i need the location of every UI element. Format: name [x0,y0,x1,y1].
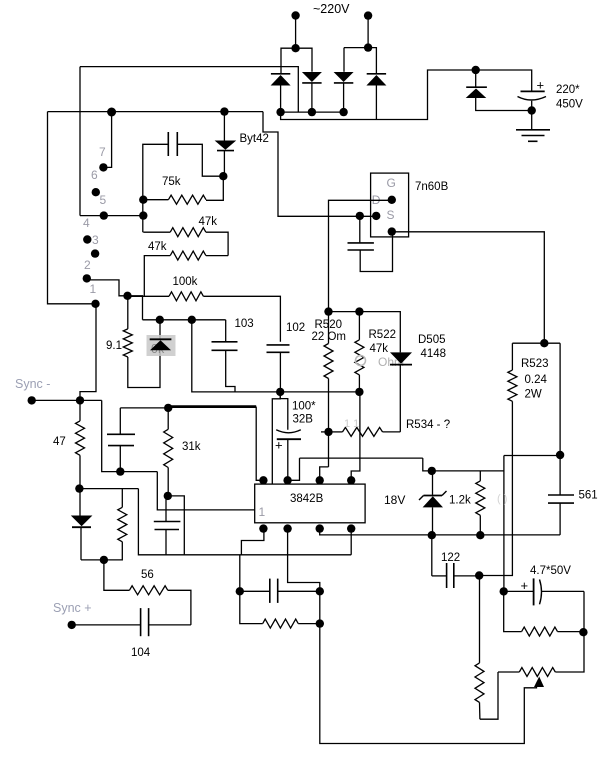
wire 102 bottom lead [279,352,281,392]
svg-text:47k: 47k [370,343,389,355]
resistor R522 [358,312,360,340]
wire pinC' rail y535 [320,529,560,535]
node pin4-row/bus junction [139,211,147,219]
capacitor C-bulk 220uF 450V [521,90,545,92]
resistor R523 [511,343,513,370]
node 47 bottom junction [75,484,83,492]
wire dot591 up [239,555,241,592]
resistor bottom-mid [240,591,263,623]
node bridge bottom D2 [308,108,316,116]
wire 103 top lead [225,320,227,342]
svg-text:4: 4 [83,216,90,230]
wire 18V feed step [423,458,432,471]
wire 561 right drop [559,343,561,455]
node bridge bottom D3 [339,108,347,116]
resistor R520 [328,312,330,344]
wire pin1 feed [157,472,254,510]
svg-text:100*: 100* [292,401,316,413]
node electrolytic top junction [276,388,284,396]
svg-text:G: G [387,176,396,190]
svg-text:3842B: 3842B [290,493,324,505]
wire x512 long vertical [479,456,512,576]
svg-text:47k: 47k [148,241,167,253]
node source row dot A [356,212,364,220]
wire 103 bottom lead [226,350,235,392]
ghost selection around zener [147,335,176,356]
wire Byt42 to 75k right end [206,176,223,200]
svg-text:103: 103 [235,318,254,330]
wire bridge top-left rail [281,48,312,73]
wire gate cap top lead [359,216,361,243]
svg-text:R522: R522 [369,329,397,341]
diode D3 bridge [334,72,354,82]
capacitor 561 [559,455,561,495]
wire AC terminal right lead [367,16,369,48]
node 122 right junction [475,571,483,579]
svg-text:7: 7 [99,145,106,159]
svg-text:S: S [387,208,395,222]
diode D505 [390,352,412,363]
node 31k top junction [164,404,172,412]
wire 47dot right row [79,488,138,490]
wire AC terminal left lead [295,16,297,49]
wire diode D5 top lead [475,70,477,87]
node bridge top-left junction [291,44,299,52]
svg-text:R534 - ?: R534 - ? [406,419,450,431]
resistor 31k [167,408,169,429]
op-amp 7n60B MOSFET box [371,173,409,237]
wire diode to junction [81,559,104,561]
wire sync junction up jog [80,304,96,401]
svg-text:75k: 75k [162,176,181,188]
node IC top pin1 [259,476,267,484]
resistor vertical small [121,489,123,508]
wire IC pin1-top drop [256,407,263,481]
wire D2 bottom lead [311,83,313,112]
wire rail y455 [504,455,560,457]
node 75k/bus junction [139,196,147,204]
wire drain row y311 [329,312,401,353]
ground [531,111,533,130]
node 18V bottom junction [428,531,436,539]
node cap118 top junction [116,467,124,475]
node source-drop junction [540,339,548,347]
svg-text:0.24: 0.24 [525,374,548,386]
zener 18V [432,471,434,495]
svg-text:( ): ( ) [497,493,507,505]
node 18V top junction [428,467,436,475]
wire DC+ output [281,70,532,120]
svg-text:1: 1 [90,282,97,296]
node 103 row junction [188,316,196,324]
wire drain lead [329,200,392,311]
wire left vertical bus [48,112,96,304]
node 4.7 cap left junction [500,587,508,595]
wire bridge top-right rail [343,48,345,72]
capacitor 103 [212,341,238,343]
node bridge top-right junction [364,43,372,51]
wire D3 bottom lead [343,83,345,112]
svg-text:2W: 2W [525,389,542,401]
node 1.2k bottom junction [476,531,484,539]
wire D1 bottom lead [280,86,282,113]
wire bottom rail [320,624,537,744]
wire R522 bottom to pin jog [351,392,360,480]
node IC bottom pin4 [347,524,355,532]
wire 9.1 top [128,296,143,320]
node 31k bottom junction [164,492,172,500]
capacitor 118 [119,408,121,434]
node Sync+ terminal [68,621,76,629]
wire feedback dot to IC top edge [272,392,280,484]
resistor trimmer [498,671,519,673]
wire R523 top row [512,342,560,344]
node IC bottom pin2 [283,524,291,532]
svg-text:102: 102 [286,322,305,334]
node Sync- terminal [28,396,36,404]
wire 31k-dot jog down [168,496,185,555]
diode D2 bridge [302,72,322,82]
capacitor 102 [267,344,290,346]
node AC terminal left [291,11,299,19]
node source row dot B [372,212,380,220]
wire vcc rail y408 [120,407,168,409]
wire 104 right lead [149,624,191,626]
wire feedback row y392 [192,320,360,392]
node R520 top junction [324,307,332,315]
wire pin6 connection [103,112,111,167]
resistor parallel-4.7 [504,591,522,631]
wire cap-res right link [319,591,321,623]
wire zener row [143,319,226,321]
svg-text:122: 122 [441,552,460,564]
svg-text:Sync -: Sync - [15,377,50,391]
capacitor snubber (75k parallel) [167,132,169,156]
node pin 3 [83,235,91,243]
wire R534 left stub [321,431,329,433]
node bulk cap ground junction [528,106,536,114]
wire pinC top jog [320,467,329,480]
wire Byt42 bottom lead [223,151,225,177]
svg-text:Byt42: Byt42 [240,133,269,145]
node Byt42 bottom junction [219,172,227,180]
node IC top pin3 [316,476,324,484]
wire pinB top jog [288,458,300,480]
svg-text:5: 5 [100,193,107,207]
svg-text:18V: 18V [384,493,405,507]
wire diode D5 bottom lead [476,98,532,111]
resistor 9.1 [127,296,129,329]
node 100k left junction [123,292,131,300]
capacitor gate [348,242,374,244]
node pin 2 [91,249,99,257]
node bottom pin [388,227,396,235]
node cap591 left junction [236,587,244,595]
diode Byt42 [215,141,237,150]
node bottom-mid junction [316,619,324,627]
capacitor 104 [140,608,142,636]
resistor 1.2k [479,471,481,481]
node diode bottom junction [100,556,108,564]
svg-text:Sync +: Sync + [53,601,92,615]
svg-text:1 1: 1 1 [344,418,359,430]
svg-text:+: + [275,438,283,453]
svg-text:9.1: 9.1 [106,340,122,352]
trimmer wiper arrow [534,677,544,688]
wire bridge bottom rail [281,111,344,113]
node R522 bottom junction [355,388,363,396]
wire Sync- lead [32,399,102,401]
resistor 47 [79,400,81,421]
wire zener top lead [159,320,161,339]
wire pinB' jog [288,529,320,592]
node R534 left junction [324,428,332,436]
svg-text:~220V: ~220V [313,2,350,16]
svg-text:6: 6 [91,168,98,182]
svg-text:32B: 32B [293,414,314,426]
svg-text:47: 47 [53,436,66,448]
wire 18V row [432,470,504,472]
wire sync right branch [102,400,158,471]
capacitor 122 [431,535,433,576]
node IC bottom pin1 [259,524,267,532]
resistor R534 [329,431,343,433]
svg-text:220*: 220* [556,84,580,96]
wire row y458 [300,457,423,459]
wire trimmer left U [480,672,498,719]
wire step to MOSFET source row [263,112,376,217]
node pin 5 [92,188,100,196]
wire pinA' step [241,529,264,555]
wire pinD' drop [350,529,352,555]
wire gate cap bottom U [360,232,392,272]
capacitor under 31k [165,496,167,522]
wire snubber cap right lead [177,144,223,176]
wire pin4 row [80,215,143,217]
resistor 75k [168,195,206,204]
node R522 top junction [355,307,363,315]
node bridge bottom D1 [276,108,284,116]
node drain pin [388,196,396,204]
node pin 6 [99,163,107,171]
node IC top pin2 [283,476,291,484]
node zener top junction [156,316,164,324]
node pin 1 [83,274,91,282]
svg-text:3: 3 [92,233,99,247]
svg-text:4.7*50V: 4.7*50V [530,565,571,577]
wire R534-junction down to pinC jog [328,432,330,467]
wire D4 bottom lead [375,86,377,120]
wire Byt42 top lead [223,112,225,141]
svg-text:2: 2 [84,258,91,272]
node pin 4 [100,211,108,219]
svg-text:561: 561 [579,490,598,502]
svg-text:104: 104 [131,647,151,659]
diode D5 [466,89,487,99]
svg-text:D505: D505 [418,334,446,346]
wire pin1 to 100k [87,280,128,296]
svg-text:450V: 450V [556,99,583,111]
wire D505 bottom lead [399,365,401,432]
diode 47-branch [79,489,81,516]
resistor 47k lower [206,255,228,257]
wire AC top-left rail [80,67,298,113]
resistor 100k [128,295,170,297]
svg-text:7n60B: 7n60B [415,181,449,193]
zener diode 9.1 clamp [150,338,172,340]
node Sync- junction [76,396,84,404]
resistor 56 [104,560,129,590]
node junction primary/left bus [107,108,116,117]
ghost circle artifact [356,356,366,366]
svg-text:56: 56 [141,569,154,581]
wire x504 vertical [503,456,505,592]
svg-text:1: 1 [259,505,266,519]
wire Sync+ lead [72,624,141,626]
capacitor electrolytic 4.7*50V [504,590,534,592]
svg-text:R523: R523 [521,358,549,370]
wire electrolytic bottom lead [287,439,289,480]
svg-text:4148: 4148 [421,348,447,360]
wire 4.7 right drop [583,591,585,632]
node left-bus bottom junction [91,300,99,308]
wire lower bus y555 [138,489,351,555]
diode D4 bridge [366,75,386,86]
wire snubber cap left lead [143,144,169,232]
resistor 47k upper [143,231,170,233]
svg-text:+: + [537,78,545,93]
svg-text:100k: 100k [173,276,198,288]
node DC+ junction [472,66,480,74]
node primary-Byt42 junction [220,107,228,115]
capacitor electrolytic 100*32B [276,430,301,433]
node IC top pin4 [347,476,355,484]
svg-text:1.2k: 1.2k [449,495,471,507]
node cap591 right junction [316,587,324,595]
wire primary top rail y112 [48,111,264,113]
wire thick rail to IC [168,405,256,408]
wire 75k left lead [143,199,169,201]
wire source to R523 drop [392,232,545,343]
node rail561 junction [556,451,564,459]
node AC terminal right [364,11,372,19]
svg-text:47k: 47k [199,216,218,228]
svg-text:31k: 31k [182,441,201,453]
wire left bus vertical x80 [79,67,81,216]
node IC bottom pin3 [316,524,324,532]
diode D1 bridge [271,75,291,86]
node res4.7 right junction [579,628,587,636]
wire electrolytic top lead [280,392,288,430]
resistor bottom-right vertical [479,576,481,663]
op-amp 3842B box [255,484,365,523]
capacitor bottom-mid [240,590,270,592]
